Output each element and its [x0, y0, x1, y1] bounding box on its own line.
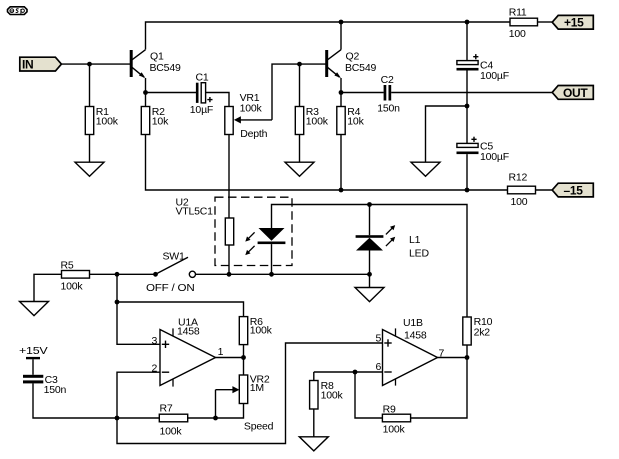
wire rail to C4: [466, 22, 468, 61]
wire top +15 rail: [146, 22, 511, 50]
svg-text:R9: R9: [383, 404, 396, 416]
wire R5 to SW1: [90, 273, 156, 275]
node dot pin6/R9: [353, 370, 358, 375]
U2 dashed box: [215, 197, 292, 265]
svg-text:OFF / ON: OFF / ON: [146, 282, 195, 294]
svg-text:1458: 1458: [177, 326, 200, 338]
svg-text:100: 100: [511, 196, 528, 208]
switch SW1: [146, 251, 195, 294]
tag -15: [552, 183, 593, 197]
wire U1B -input / R8: [314, 371, 383, 373]
resistor R11: [510, 18, 538, 26]
supply +15V stub: [19, 345, 48, 375]
node dot VR2 wiper: [213, 416, 218, 421]
wire Q2 collector: [340, 22, 342, 50]
wire R4 bottom: [340, 135, 342, 191]
resistor R10: [463, 317, 471, 345]
wire C5 to -15 rail: [466, 154, 468, 190]
svg-text:R7: R7: [160, 403, 173, 415]
wire R10 feed: [466, 316, 468, 318]
ground R3: [285, 162, 314, 176]
LED U2: [245, 205, 467, 318]
wire R8 bottom: [313, 409, 315, 437]
svg-text:100µF: 100µF: [480, 70, 509, 82]
node dot input/R1: [87, 62, 92, 67]
wire C1 to VR1: [206, 93, 229, 107]
wire R10 bottom: [466, 345, 468, 358]
tag +15: [552, 15, 593, 29]
svg-text:R12: R12: [509, 172, 528, 184]
wire R1 bottom: [89, 135, 91, 163]
svg-text:2k2: 2k2: [474, 327, 491, 339]
svg-text:+15V: +15V: [19, 345, 48, 357]
svg-text:IN: IN: [22, 58, 33, 72]
svg-text:100k: 100k: [306, 116, 329, 128]
svg-text:100k: 100k: [250, 325, 273, 337]
wire U1A output: [216, 357, 244, 359]
wire C3 bottom to R7 line: [33, 383, 159, 418]
node dot R5/U1A: [115, 272, 120, 277]
LDR U2: [225, 218, 233, 245]
svg-text:OUT: OUT: [563, 86, 588, 100]
wire R1 top: [89, 64, 91, 106]
svg-text:5: 5: [376, 332, 382, 344]
resistor R4: [340, 93, 342, 107]
potentiometer VR1: [225, 92, 272, 140]
node dot -15 rail: [465, 188, 470, 193]
svg-text:C2: C2: [381, 74, 394, 86]
wire C2 to OUT: [391, 92, 552, 94]
wire SW1 to LED bottoms: [196, 273, 370, 275]
svg-text:SW1: SW1: [163, 251, 186, 263]
svg-text:U1B: U1B: [403, 317, 423, 329]
svg-text:L1: L1: [409, 234, 421, 246]
svg-text:1458: 1458: [404, 329, 427, 341]
ground L1: [355, 288, 384, 302]
ground C4/C5: [411, 162, 440, 176]
svg-text:100k: 100k: [96, 116, 119, 128]
svg-text:BC549: BC549: [345, 62, 376, 74]
resistor R8: [313, 372, 315, 381]
svg-text:+15: +15: [564, 16, 584, 30]
wire Q2 emitter down: [340, 78, 342, 93]
node dot R7 left: [115, 416, 120, 421]
op-amp U1A: [152, 317, 224, 387]
node dot R3 top: [297, 62, 302, 67]
tag IN: [20, 57, 62, 71]
resistor R1: [85, 107, 93, 135]
wire emitter to C1: [146, 92, 197, 94]
wire emitter to C2: [341, 92, 384, 94]
wire R6 bottom: [243, 345, 245, 358]
wire U1A +input feed: [117, 274, 160, 344]
resistor R5: [34, 274, 62, 301]
wire U1B output: [438, 357, 468, 359]
node dot U1A output: [241, 355, 246, 360]
resistor R2: [145, 93, 147, 107]
svg-text:BC549: BC549: [150, 62, 181, 74]
esp logo: [8, 7, 28, 15]
LED L1: [356, 205, 430, 288]
wire R9 line: [355, 372, 382, 418]
svg-text:VTL5C1: VTL5C1: [176, 206, 214, 218]
node dot Q1 emitter: [143, 90, 148, 95]
capacitor C1: [190, 72, 213, 116]
op-amp U1B: [376, 317, 445, 386]
resistor R3: [299, 64, 301, 106]
svg-text:10µF: 10µF: [190, 104, 213, 116]
wire mid node to ground: [426, 106, 468, 162]
svg-text:100: 100: [509, 28, 526, 40]
wire U1B +input feed: [117, 343, 383, 444]
resistor R9: [382, 414, 410, 422]
resistor R6: [239, 317, 247, 345]
svg-text:1M: 1M: [250, 382, 264, 394]
svg-text:3: 3: [152, 335, 158, 347]
node dot L1 top: [367, 202, 372, 207]
svg-text:100k: 100k: [160, 425, 183, 437]
node dot L1 bottom: [367, 272, 372, 277]
node dot R6 branch: [115, 300, 120, 305]
potentiometer VR2: [216, 358, 274, 433]
svg-text:100k: 100k: [61, 281, 84, 293]
svg-text:Speed: Speed: [244, 420, 274, 432]
svg-text:Q2: Q2: [346, 50, 360, 62]
wire LDR bottom: [228, 245, 230, 274]
node dot Q2 collector: [339, 20, 344, 25]
node dot mid ground: [465, 104, 470, 109]
ground R1: [75, 162, 104, 176]
svg-text:100k: 100k: [321, 390, 344, 402]
svg-text:R11: R11: [509, 7, 527, 19]
svg-text:R5: R5: [61, 259, 74, 271]
wire R2 bottom to -15 rail: [146, 135, 468, 191]
node dot LED U2 bottom: [269, 272, 274, 277]
node dot R4/-15 rail: [339, 188, 344, 193]
capacitor C5: [457, 137, 509, 163]
transistor Q1: [131, 50, 181, 78]
resistor R12: [467, 189, 508, 191]
svg-text:10k: 10k: [152, 116, 169, 128]
svg-text:Depth: Depth: [240, 128, 267, 140]
svg-text:150n: 150n: [377, 102, 400, 114]
svg-text:Q1: Q1: [150, 50, 164, 62]
svg-text:10k: 10k: [347, 116, 364, 128]
wire U1A -input: [117, 372, 160, 418]
svg-text:LED: LED: [409, 248, 429, 260]
capacitor C4: [457, 54, 509, 82]
node dot top rail / C4: [465, 20, 470, 25]
wire R3 bottom: [299, 135, 301, 163]
wire VR1 wiper riser to Q2 base: [272, 64, 327, 120]
svg-text:C1: C1: [196, 72, 209, 84]
wire R7 right: [188, 417, 216, 419]
capacitor C3: [23, 374, 67, 396]
svg-text:100k: 100k: [383, 424, 406, 436]
ground R5: [20, 302, 49, 316]
wire to R6 top: [117, 302, 244, 317]
wire C4 to mid node: [466, 71, 468, 144]
node dot LDR bottom: [227, 272, 232, 277]
wire VR1 bottom to LDR: [228, 135, 230, 219]
node dot Q2 emitter: [339, 90, 344, 95]
wire Q1 emitter down: [145, 78, 147, 93]
node dot U1B output: [465, 355, 470, 360]
svg-text:100k: 100k: [240, 103, 263, 115]
capacitor C2: [377, 74, 400, 114]
svg-text:150n: 150n: [44, 384, 67, 396]
tag OUT: [552, 86, 593, 100]
ground R8: [299, 437, 328, 451]
wire R9 to output: [411, 358, 467, 419]
svg-text:–15: –15: [564, 184, 584, 198]
transistor Q2: [327, 50, 377, 78]
wire IN to Q1 base: [61, 63, 130, 65]
svg-text:100µF: 100µF: [480, 151, 509, 163]
wire R11 to +15 tag: [538, 21, 553, 23]
resistor R7: [159, 414, 187, 422]
svg-text:1: 1: [218, 346, 224, 358]
